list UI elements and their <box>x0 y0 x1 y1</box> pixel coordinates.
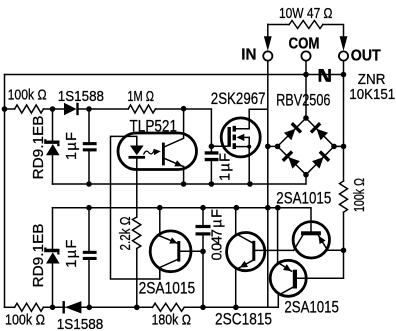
bridge B1 RBV2506 <box>278 118 335 175</box>
svg-text:10K151: 10K151 <box>349 87 395 103</box>
varistor ZNR N symbol <box>319 69 331 82</box>
svg-text:2SA1015: 2SA1015 <box>276 188 331 207</box>
node bus2 C4 <box>200 205 206 211</box>
bridge left stub <box>268 145 278 147</box>
Q3 collector <box>294 236 303 251</box>
wire row bottom a <box>43 306 65 308</box>
phototransistor collector <box>165 109 184 147</box>
wire bus1 y=184 <box>53 183 306 185</box>
node bus1 mosfet source <box>247 181 253 187</box>
node row bottom zener Z2 <box>50 305 56 311</box>
node bridge right vertex <box>331 144 337 150</box>
node C4 bases <box>200 249 206 255</box>
zener Z2 RD9.1EB column <box>52 208 54 249</box>
resistor R3 10W 47ohm loop <box>268 24 289 26</box>
node bus2 Q2 collector <box>234 205 240 211</box>
wire row1 b <box>79 108 129 110</box>
body arrow <box>242 136 249 138</box>
wire bottom row y=307.3 <box>5 306 15 308</box>
bridge diode top-right <box>310 122 329 141</box>
transistor Q3 2SA1015 upper-right <box>293 222 329 258</box>
svg-text:180k Ω: 180k Ω <box>152 312 192 328</box>
node bus1 C3 <box>209 181 215 187</box>
svg-text:100k Ω: 100k Ω <box>8 88 47 104</box>
node row bottom C4 <box>200 305 206 311</box>
node bus2 IN line <box>265 205 271 211</box>
wire row1 a <box>43 108 64 110</box>
Q2 base wire to right <box>255 249 293 251</box>
svg-text:2SA1015: 2SA1015 <box>284 297 339 316</box>
svg-text:1M Ω: 1M Ω <box>127 89 154 105</box>
Q2 emitter <box>236 260 254 270</box>
svg-text:2SK2967: 2SK2967 <box>211 89 266 108</box>
Q4 emitter <box>277 208 279 263</box>
node bus1 C1 <box>86 181 92 187</box>
node row1 C1 <box>86 106 92 112</box>
Q1 collector <box>160 260 178 279</box>
transistor Q2 2SC1815 <box>227 233 265 271</box>
svg-text:2.2k Ω: 2.2k Ω <box>118 216 134 250</box>
resistor R4 2.2k vertical zigzag <box>133 217 141 249</box>
svg-text:100k Ω: 100k Ω <box>5 312 45 328</box>
phototransistor base bar <box>162 143 165 166</box>
node row bottom C2 <box>87 305 93 311</box>
bridge diode bottom-left <box>282 150 301 169</box>
node bridge right stub <box>341 144 347 150</box>
wire row bottom b <box>81 306 152 308</box>
node row1 zener Z1 <box>50 106 56 112</box>
node bus1 TLP emitter <box>181 181 187 187</box>
svg-text:TLP521: TLP521 <box>130 116 178 135</box>
node row1 TLP collector <box>181 106 187 112</box>
LED anode wire <box>111 136 160 279</box>
Q1 base lead <box>180 250 203 252</box>
wire top bus y=74.5 <box>5 74 344 76</box>
bridge bottom link <box>305 175 307 184</box>
resistor R2 1M zigzag <box>128 105 155 113</box>
resistor R5 100k bottom zigzag <box>15 303 44 311</box>
svg-text:OUT: OUT <box>351 48 381 65</box>
LED cathode wire / 2.2k column <box>136 159 138 217</box>
capacitor C1 1uF <box>88 109 90 142</box>
wire left column x=4.5 <box>4 75 6 308</box>
svg-text:1µF: 1µF <box>64 240 80 268</box>
bridge right stub <box>334 145 344 147</box>
bridge diode bottom-right <box>311 150 330 169</box>
zener Z1 RD9.1EB column <box>52 109 54 141</box>
svg-text:IN: IN <box>241 47 256 64</box>
resistor R1 100k zigzag <box>15 105 44 113</box>
svg-text:1S1588: 1S1588 <box>58 89 104 105</box>
wire row1 left <box>5 108 15 110</box>
wire gate lead <box>211 145 227 147</box>
node OUT bus <box>341 72 347 78</box>
Q1 emitter <box>160 236 178 243</box>
light arrow <box>144 151 154 154</box>
node row bottom Q2 emitter <box>233 305 239 311</box>
node gate <box>209 144 215 150</box>
svg-text:RD9.1EB: RD9.1EB <box>31 116 47 180</box>
node bus2 Q1 emitter <box>157 205 163 211</box>
node bridge left stub <box>265 144 271 150</box>
node row bottom R4 <box>134 305 140 311</box>
optocoupler U1 TLP521 stadium <box>118 133 197 170</box>
node bridge bottom <box>303 172 309 178</box>
node bridge left vertex <box>275 144 281 150</box>
capacitor C4 0.047uF <box>202 208 204 225</box>
node right 100k Q3 Q4 <box>341 248 347 254</box>
wire row1 c to gate corner <box>155 109 211 146</box>
svg-text:RBV2506: RBV2506 <box>276 91 330 110</box>
Q4 collector <box>278 287 293 295</box>
svg-text:10W 47 Ω: 10W 47 Ω <box>279 6 333 22</box>
bridge top column <box>305 75 307 119</box>
node bus2 C2 <box>86 205 92 211</box>
node bridge top <box>303 115 309 121</box>
node COM bus <box>303 72 309 78</box>
phototransistor emitter <box>165 159 184 167</box>
terminal OUT <box>340 36 348 51</box>
gate bar <box>228 127 231 147</box>
capacitor C3 1uF gate <box>210 146 212 151</box>
svg-text:ZNR: ZNR <box>358 72 386 88</box>
transistor Q4 2SA1015 lower-right <box>270 260 306 296</box>
Q3 emitter <box>319 236 328 251</box>
terminal COM <box>301 51 310 60</box>
svg-text:2SC1815: 2SC1815 <box>215 310 272 329</box>
wire OUT column down <box>343 75 345 182</box>
transistor Q1 2SA1015 lower-left <box>150 231 191 272</box>
channel bars <box>233 126 236 149</box>
svg-text:RD9.1EB: RD9.1EB <box>31 224 47 288</box>
resistor R7 100k right vertical <box>340 181 348 212</box>
capacitor C2 1uF <box>88 208 90 251</box>
svg-text:100k Ω: 100k Ω <box>352 178 368 212</box>
diode D1 1S1588 <box>64 103 79 115</box>
svg-text:2SA1015: 2SA1015 <box>139 278 196 297</box>
svg-text:1µF: 1µF <box>218 153 234 181</box>
svg-text:0.047 µ F: 0.047 µ F <box>210 209 226 261</box>
svg-text:1S1588: 1S1588 <box>57 317 104 331</box>
svg-text:COM: COM <box>289 36 320 53</box>
drain lead <box>236 109 268 128</box>
wire row bottom c <box>184 295 278 307</box>
bridge diode top-left <box>283 122 302 141</box>
LED D3 triangle <box>129 146 146 159</box>
wire bus2 y=207.7 with corner to Q3 base <box>53 208 312 231</box>
node row1 left <box>2 106 8 112</box>
terminal IN <box>267 25 269 37</box>
svg-text:1µF: 1µF <box>64 132 80 160</box>
source lead <box>236 146 249 148</box>
Q2 collector <box>236 208 253 243</box>
resistor R6 180k zigzag <box>153 303 185 311</box>
diode D2 1S1588 bottom <box>63 301 82 313</box>
mosfet Q5 2SK2967 <box>221 118 260 157</box>
node bus2 Q4 emitter <box>275 205 281 211</box>
